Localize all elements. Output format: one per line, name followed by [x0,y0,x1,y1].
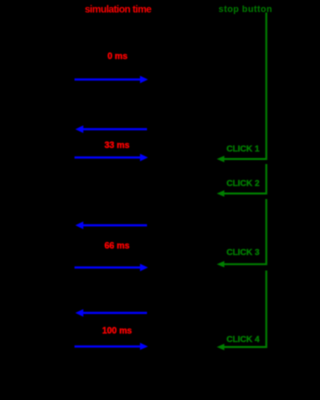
wire: blue arrow 2 left (reply) [75,125,147,133]
svg-text:100 ms: 100 ms [102,325,132,335]
wire: blue arrow 7 right at 100 ms [75,343,149,350]
svg-text:33 ms: 33 ms [105,140,130,150]
svg-text:stop button: stop button [219,4,273,14]
svg-text:CLICK 1: CLICK 1 [226,144,259,154]
svg-text:simulation time: simulation time [85,5,152,16]
wire: blue arrow 4 left (reply) [75,222,147,230]
wire: blue arrow 3 right at 33 ms [75,154,149,162]
wire: green connector 1 from stop button line to click arrow 1 [224,13,267,160]
wire: blue arrow 5 right at 66 ms [75,264,149,272]
wire: green connector 4 [224,271,267,348]
svg-text:CLICK 3: CLICK 3 [226,247,259,257]
svg-text:CLICK 2: CLICK 2 [226,178,259,188]
wire: blue arrow 6 left (reply) [75,309,147,317]
svg-text:66 ms: 66 ms [105,241,130,251]
svg-text:0 ms: 0 ms [107,51,127,61]
wire: green connector 3 [224,199,267,264]
wire: blue arrow 1 right at 0 ms [75,76,149,84]
wire: green connector 2 [224,164,267,194]
svg-text:CLICK 4: CLICK 4 [226,334,259,344]
